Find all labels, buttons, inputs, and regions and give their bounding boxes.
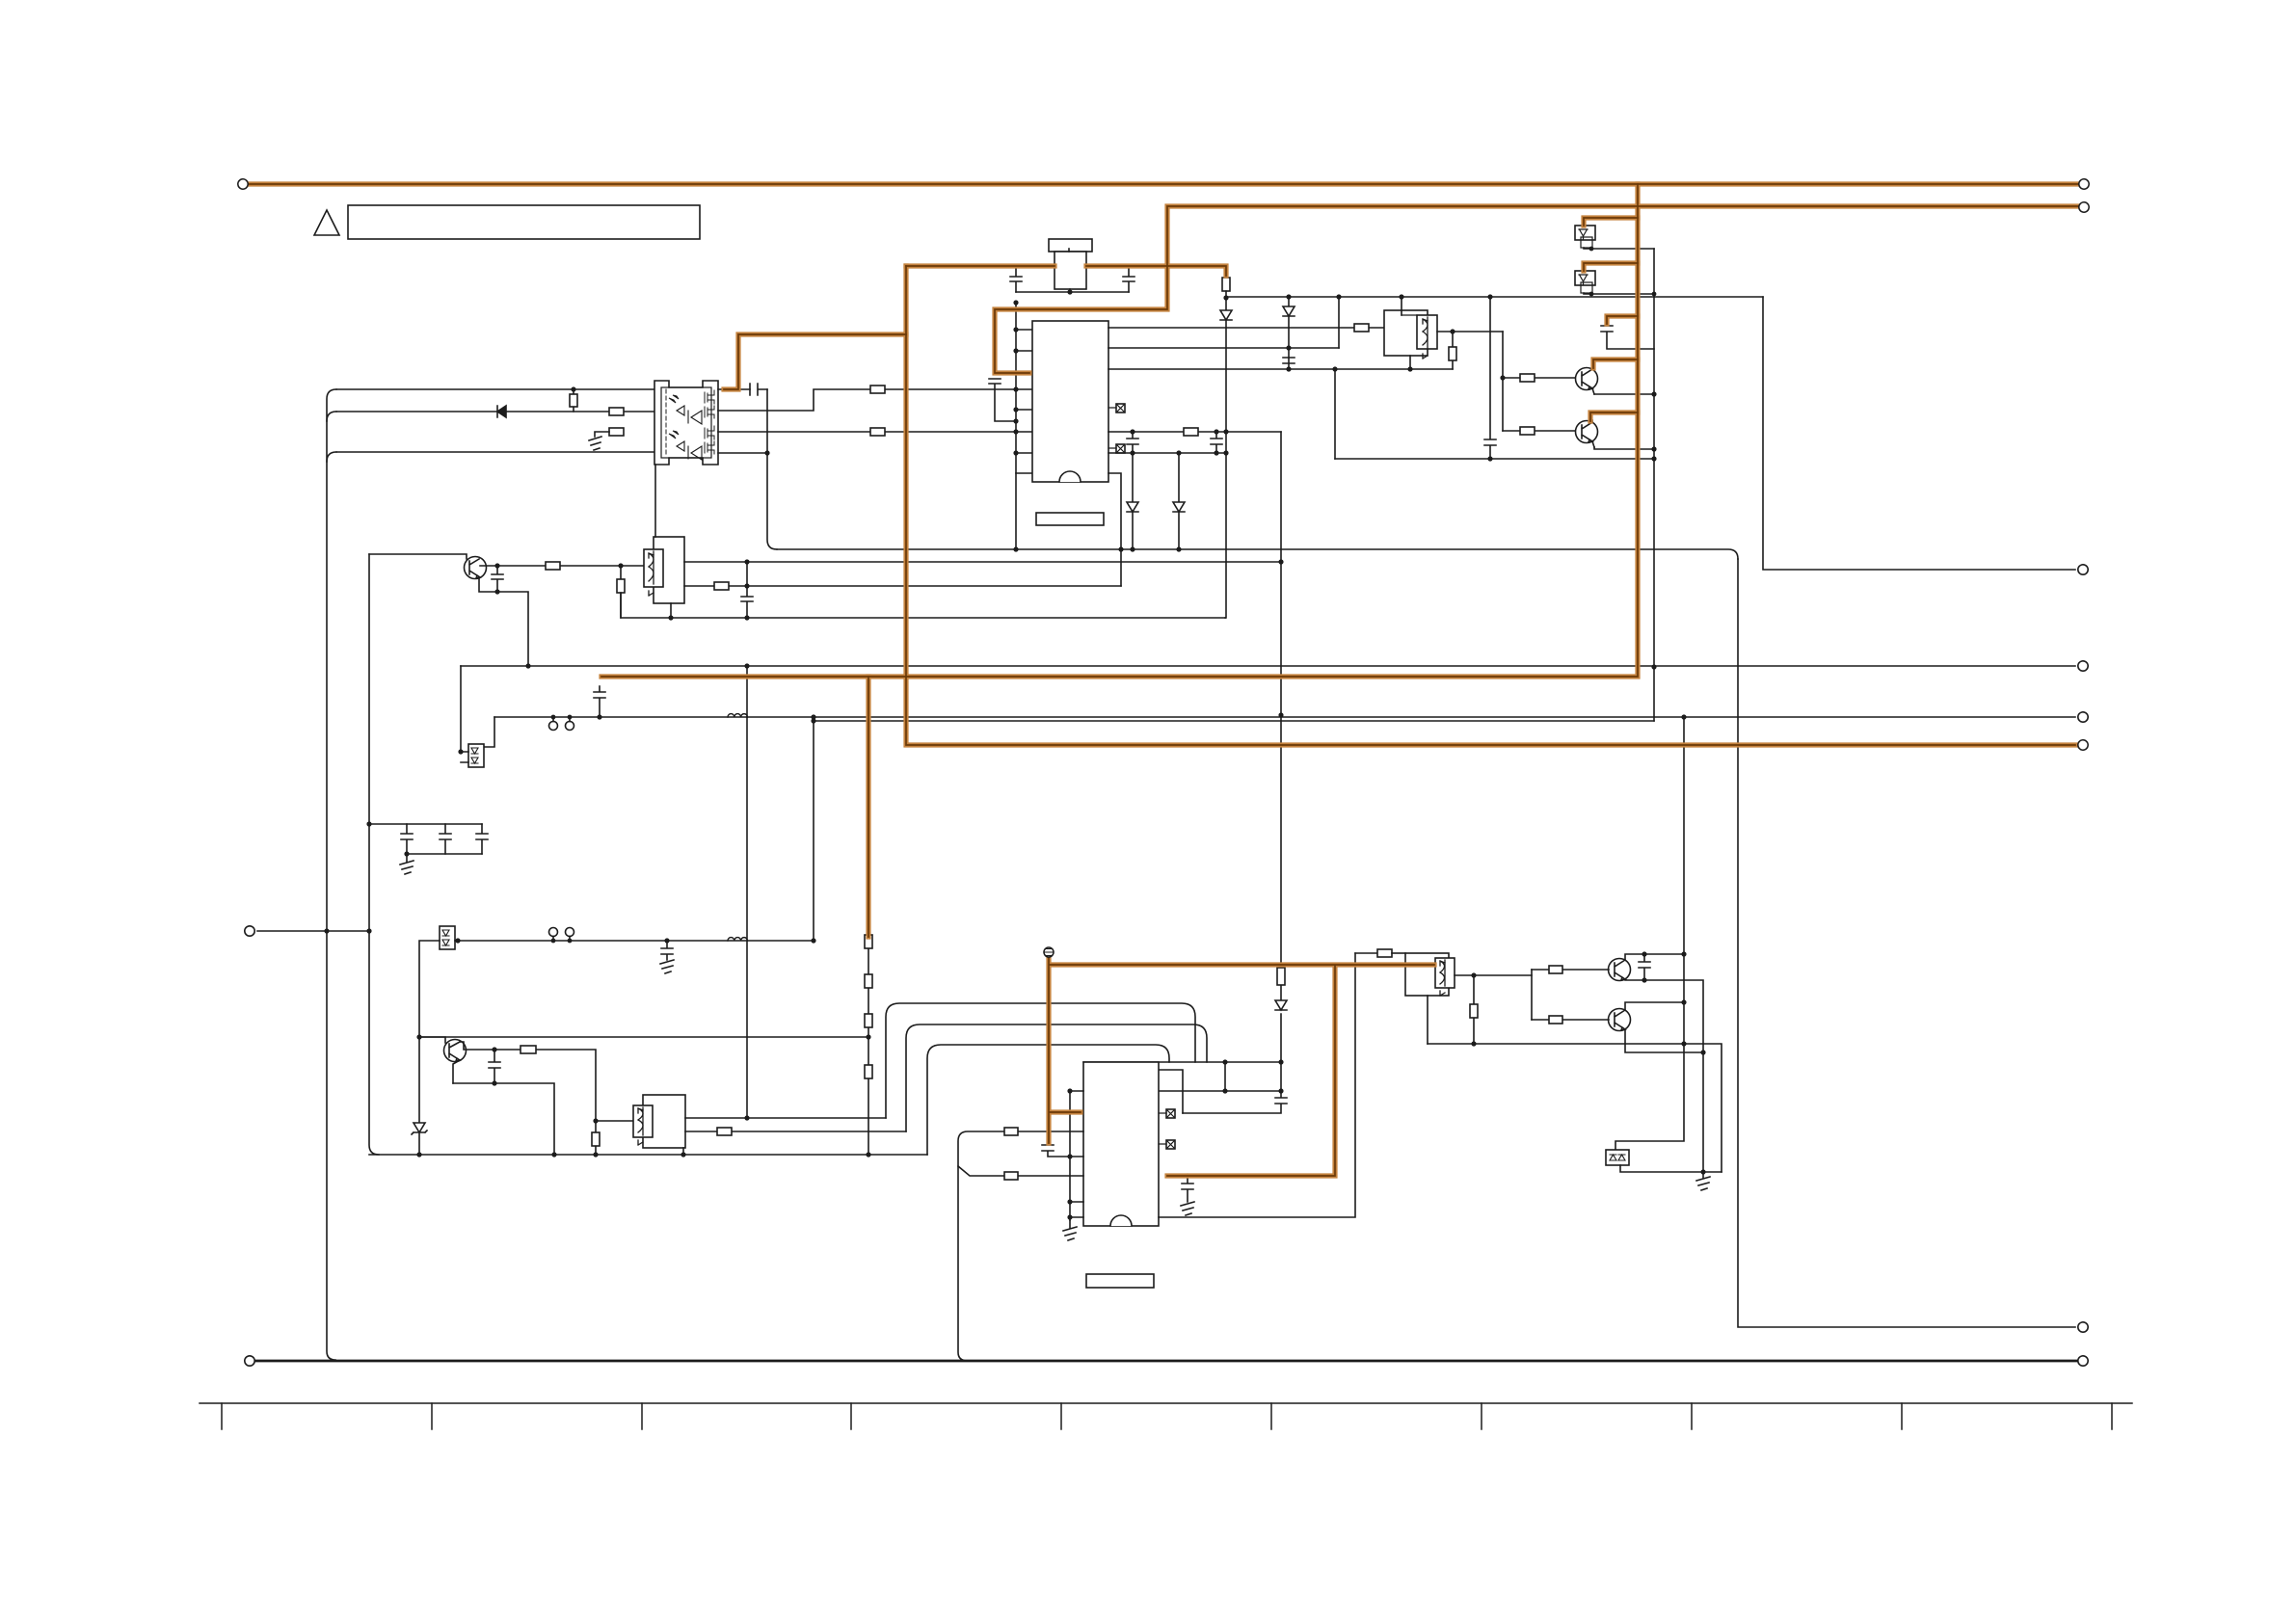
inductor L1 on y=744 bbox=[728, 714, 747, 717]
wire Q2 collector y=1089 bbox=[460, 1042, 596, 1121]
test point TP1 bbox=[1044, 947, 1054, 957]
wire x=1589 base split bbox=[1531, 970, 1533, 1020]
nodes on x=1054 bus bbox=[1013, 300, 1018, 305]
wire Q4 base y=447 bbox=[1503, 430, 1575, 432]
node x796 y470 bbox=[764, 450, 769, 455]
wire U1 right pin y=361 bbox=[1108, 347, 1339, 349]
wire x=775 y691 to y744 bbox=[746, 666, 748, 717]
wire x=1546 y308 down with cap C24 bbox=[1484, 297, 1496, 459]
wire y=404 to optocoupler U3 bbox=[336, 388, 654, 390]
driver U4 box bbox=[1384, 310, 1428, 356]
capacitor C13 series on y=404 bbox=[750, 384, 767, 395]
resistor R15 on y=448 bbox=[870, 428, 885, 436]
terminal circle T4R orange rail bbox=[2078, 740, 2088, 750]
wire U7 right pin y=976 rail bbox=[455, 940, 814, 942]
wire U9 output y=1012 bbox=[1455, 974, 1532, 976]
U8 pair glyph bbox=[638, 1108, 643, 1145]
footer tick 6 bbox=[1270, 1403, 1272, 1429]
diode pack DZ3 bbox=[1606, 1150, 1629, 1165]
wire Q3 base y=392 bbox=[1503, 377, 1575, 379]
node y=448 on bus bbox=[1013, 429, 1018, 434]
heatsink tab Q0 bbox=[1049, 239, 1092, 252]
wire Q6 base y=1058 bbox=[1532, 1019, 1609, 1021]
U1 watchdog pins right small squares bbox=[1116, 404, 1125, 412]
resistor R22 on y=448 bbox=[1184, 428, 1198, 436]
resistor chain x=901 R51 R52 R53 R54 bbox=[868, 948, 869, 1155]
capacitor C3 under orange pin bbox=[989, 379, 1016, 421]
wire y=641 rail bbox=[621, 593, 1225, 618]
wire U5 bottom pin down bbox=[670, 603, 672, 618]
wire U2 right pin y=1263 to x=1406 up bbox=[1159, 953, 1355, 1217]
capacitor C1 left of T1 bbox=[1010, 266, 1022, 292]
nest bracket W1 bbox=[886, 1003, 1195, 1118]
U2 watchdog pins right small squares bbox=[1166, 1109, 1175, 1118]
transistor Q1 bbox=[465, 557, 487, 579]
zener pack DZ2 bbox=[1584, 263, 1638, 271]
wire y=427 from left bus bbox=[327, 412, 336, 421]
U1 outer frame right wire bbox=[1108, 473, 1121, 586]
resistor R35 vertical x=617 bbox=[595, 1121, 597, 1155]
wire U3 pin2 right then up to y=404 rail bbox=[718, 389, 1016, 411]
resistor R33 on y=608 bbox=[714, 582, 729, 590]
optocoupler U7 bbox=[440, 926, 455, 949]
capacitor bank C34 C35 C36 top rail bbox=[369, 823, 482, 825]
wire y=1124 bbox=[453, 1083, 554, 1155]
footer tick 8 bbox=[1691, 1403, 1693, 1429]
wire U1 right pin y=383 bbox=[1108, 368, 1453, 370]
IC U1 body bbox=[1032, 321, 1108, 482]
wire x=1271 corner up from y641 bbox=[1224, 617, 1226, 619]
footer tick 5 bbox=[1060, 1403, 1062, 1429]
wire output x=1559 down bbox=[1502, 332, 1504, 431]
ground G1 bbox=[589, 437, 601, 450]
wire U5 output y=608 bbox=[684, 585, 1121, 587]
resistor R24 vertical x=1507 bbox=[1452, 332, 1454, 369]
capacitor C34 bbox=[401, 824, 413, 854]
capacitor C31 bbox=[492, 566, 503, 592]
wire Q1 base y=575 bbox=[369, 554, 467, 559]
wire Q2 base junction y=1076 bbox=[419, 1036, 868, 1038]
wire U4 bottom pin to y383 bbox=[1409, 356, 1411, 369]
wire U5 right top to y=583 bbox=[684, 561, 1281, 563]
transistor Q3 bbox=[1576, 368, 1598, 390]
wire U4 output node bbox=[1437, 331, 1503, 333]
diode D23 on x=1271 bbox=[1220, 310, 1232, 320]
wire y=570 rail bbox=[777, 549, 1738, 559]
U3 ch1 photodiode buffer fets bbox=[669, 395, 679, 403]
wire Q2 emitter down bbox=[453, 1060, 460, 1083]
wire x=383 vertical bbox=[369, 554, 379, 1155]
wire Q3 emitter to x=1716 bbox=[1594, 393, 1654, 395]
resistor R21 on y=340 bbox=[1354, 324, 1369, 332]
resistor R32 vertical x=644 bbox=[620, 566, 622, 618]
terminal circle OUT2 bbox=[2078, 661, 2088, 671]
wire U3 pin4 to x=796 junction bbox=[718, 452, 767, 454]
wire y=308 rail bbox=[1226, 296, 1763, 298]
connector pins P1 P2 bbox=[549, 722, 558, 731]
IC U2 body bbox=[1083, 1062, 1159, 1226]
wire U3 out pin1 to cap bbox=[718, 388, 750, 390]
wire U2 left pin y=1174 with resistor R55 bbox=[958, 1131, 1083, 1361]
optocoupler U3 package bbox=[654, 381, 718, 465]
footer tick 10 bbox=[2111, 1403, 2113, 1429]
wire U2 pin jog x=1227 bbox=[1159, 1070, 1183, 1113]
wire Q1 emitter bbox=[479, 577, 528, 666]
U1 left pin bus x=1054 bbox=[1015, 303, 1017, 549]
main bus thick wire y=1412 bbox=[255, 1360, 2079, 1363]
capacitor C38 bbox=[489, 1050, 500, 1083]
capacitor C21 x=1175 bbox=[1127, 432, 1138, 453]
U4 npn pnp pair glyph bbox=[1423, 319, 1428, 359]
footer tick 4 bbox=[850, 1403, 852, 1429]
wire y=448 ground stub bbox=[595, 432, 609, 437]
resistor R12 on y=427 bbox=[609, 408, 624, 415]
resistor R26 bbox=[1520, 427, 1535, 435]
diode D41 on x=1329 bbox=[1275, 1000, 1287, 1010]
wire U8 top out y=1160 east to bracket W1 bbox=[685, 1117, 886, 1119]
capacitor C2 right of T1 bbox=[1123, 266, 1135, 292]
resistor R14 on y=404 rail bbox=[870, 386, 885, 393]
terminal circle T2R bbox=[2079, 202, 2089, 212]
wire U8 out y=1174 east to bracket W2 bbox=[685, 1131, 906, 1132]
wire x=775 vertical from y=744 bbox=[746, 717, 748, 1118]
wire x=1385 y383-y476 bbox=[1334, 369, 1336, 459]
wire x=1272 vertical bbox=[1225, 291, 1227, 618]
capacitor C41 x=1329 bbox=[1183, 1062, 1287, 1113]
U9 pair glyph bbox=[1440, 961, 1445, 996]
diode D22 hanging x=1223 bbox=[1178, 453, 1180, 549]
capacitor C36 bbox=[476, 824, 488, 854]
footer tick 2 bbox=[431, 1403, 433, 1429]
terminal circle OUT7 bbox=[2078, 1356, 2088, 1366]
diode D21 hanging x=1175 bbox=[1132, 453, 1134, 549]
wire U1 right pin y=340 to driver bbox=[1108, 327, 1384, 329]
wire U4 top feed from y308 bbox=[1401, 297, 1402, 315]
footer tick 7 bbox=[1481, 1403, 1482, 1429]
resistor R25 bbox=[1520, 374, 1535, 382]
wire U3 pin3 long right y=448 bbox=[718, 431, 1108, 433]
wire x=1716 vertical bbox=[1653, 249, 1655, 721]
wire U9 bottom pin down bbox=[1427, 996, 1428, 1044]
capacitor C51 x=1087 under orange bbox=[1042, 1145, 1070, 1157]
capacitor C33 under orange at x=622 bbox=[594, 686, 605, 717]
wire U7 left pin west then down x=435 bbox=[419, 941, 440, 1155]
capacitor C25 x=1667 bbox=[1601, 322, 1654, 349]
wire y=691 rail long bbox=[461, 665, 2075, 667]
node y303 bbox=[1067, 289, 1072, 294]
wire T1 bottom pin bbox=[1069, 289, 1071, 292]
wire corner x=1389 y308-y361 bbox=[1338, 297, 1340, 348]
wire y=303 under T1 bbox=[1016, 291, 1129, 293]
nest bracket W3 bbox=[927, 1045, 1169, 1155]
wire from IN1 to x=383 bbox=[257, 930, 369, 932]
capacitor C35 bbox=[440, 824, 451, 854]
zener pack DZ1 bbox=[1584, 218, 1638, 226]
driver U9 box bbox=[1405, 953, 1449, 996]
terminal circle IN2 bbox=[245, 1356, 254, 1366]
wire x=1271 y1102-1132 bbox=[1224, 1062, 1226, 1091]
warning triangle bbox=[314, 210, 339, 235]
wire y=1083 rail bbox=[1428, 1044, 1722, 1172]
terminal circle T1L bbox=[238, 179, 248, 189]
terminal circle T1R bbox=[2079, 179, 2089, 189]
resistor R41 on x=1329 bbox=[1277, 968, 1285, 985]
wire y=469 from left bus bbox=[327, 452, 336, 462]
ground G4 bbox=[1063, 1220, 1077, 1240]
wire x=1747 vertical bbox=[1615, 717, 1684, 1150]
terminal circle IN1 bbox=[245, 926, 254, 936]
capacitor C37 with ground at x=692 bbox=[661, 941, 673, 960]
U1 pin stubs left bbox=[1016, 330, 1032, 473]
wire Q6 collector bbox=[1625, 1002, 1684, 1010]
terminal circle OUT1 bbox=[2078, 565, 2088, 574]
label box under U2 bbox=[1086, 1274, 1154, 1288]
wire x=844 vertical bbox=[813, 717, 814, 941]
resistor R13 on y=448 bbox=[609, 428, 624, 436]
capacitor C52 and ground at x=1232 bbox=[1182, 1176, 1193, 1202]
wire U2 left pin y=1220 with resistor R56 bbox=[958, 1166, 1083, 1176]
diode D11 on y=427 bbox=[497, 406, 506, 417]
zener D31 on x=435 bbox=[412, 1123, 427, 1134]
wire Q6 emitter bbox=[1625, 1029, 1703, 1052]
resistor R61 bbox=[1377, 949, 1392, 957]
nest bracket W2 bbox=[906, 1024, 1207, 1131]
ground G2 bbox=[400, 854, 414, 874]
wire left input bus verticals bbox=[327, 389, 336, 1360]
wire Q5 emitter bbox=[1625, 979, 1703, 1172]
wire U2 right pin y=1132 bbox=[1159, 1090, 1281, 1092]
resistor R62 vertical x=1529 bbox=[1473, 975, 1475, 1044]
wire x=1803 long vertical to OUT6 bbox=[1738, 559, 2075, 1327]
resistor R34 bbox=[521, 1046, 536, 1053]
wire cap bank bottom rail bbox=[407, 853, 482, 855]
capacitor C22 x=1262 bbox=[1211, 432, 1222, 453]
transistor Q5 bbox=[1609, 959, 1631, 981]
capacitor C23 on x=1337 bbox=[1283, 358, 1295, 363]
wire U1 right pin y=470 east bbox=[1108, 452, 1225, 454]
wire x=775 y583 to y641 with cap C32 bbox=[741, 562, 753, 618]
footer tick 1 bbox=[221, 1403, 223, 1429]
note box bbox=[348, 205, 700, 239]
wire Q4 emitter to x=1716 bbox=[1594, 447, 1654, 449]
U5 pair glyph bbox=[649, 553, 654, 596]
wire driver U9 feed bbox=[1355, 952, 1377, 954]
capacitor C61 bbox=[1639, 954, 1650, 980]
diode D24 on x=1337 bbox=[1288, 297, 1290, 369]
wire Q5 collector bbox=[1625, 954, 1684, 960]
wire x=513 corner down to opto U6 right pin bbox=[484, 717, 494, 747]
wire Q5 base y=1006 bbox=[1532, 969, 1609, 971]
resistor R31 bbox=[546, 562, 560, 570]
wire U1 right pin y=448 east bbox=[1108, 431, 1281, 433]
U3 ch2 photodiode buffer fets bbox=[669, 431, 679, 439]
wire vertical x=796 down to y=570 bbox=[767, 389, 777, 549]
wire y=308 corner down x=1829 to terminal bbox=[1763, 297, 2075, 570]
wire Q1 collector y=587 bbox=[480, 565, 646, 567]
wire U5 top pin up to U3 bbox=[654, 465, 656, 537]
driver U8 box bbox=[596, 1120, 643, 1122]
transistor Q4 bbox=[1576, 421, 1598, 443]
resistor R11 vertical between y404/y427 bbox=[573, 389, 574, 412]
connector pins P3 P4 bbox=[549, 928, 558, 937]
driver U5 box bbox=[654, 537, 684, 603]
footer border line bbox=[200, 1402, 2132, 1404]
ground G6 bbox=[1696, 1172, 1710, 1190]
wire y=476 bbox=[1335, 458, 1654, 460]
resistor R36 bbox=[717, 1128, 732, 1135]
wire x=844 y748 rail west end bbox=[814, 720, 1654, 722]
inductor L2 on y=976 bbox=[728, 938, 747, 941]
U2 left pin bus x=1110 bbox=[1069, 1091, 1071, 1220]
wire U8 bottom pin bbox=[682, 1148, 684, 1155]
transistor Q6 bbox=[1609, 1009, 1631, 1031]
optocoupler U6 bbox=[468, 744, 484, 767]
transistor Q2 bbox=[419, 1037, 445, 1043]
ground G5 bbox=[1181, 1202, 1194, 1215]
wire x=478 down to opto U6 bbox=[460, 666, 462, 752]
node y583 end bbox=[1278, 559, 1283, 564]
wire y=744 rail long bbox=[494, 716, 2075, 718]
label box under U1 bbox=[1036, 513, 1104, 525]
resistor R23 top of x=1271 under orange bbox=[1222, 278, 1230, 291]
wire y=1198 bottom rail bbox=[369, 1154, 927, 1156]
footer tick 9 bbox=[1901, 1403, 1903, 1429]
terminal circle OUT6 bbox=[2078, 1322, 2088, 1332]
ground G3 bbox=[660, 960, 674, 973]
wire x=1329 long vertical bbox=[1280, 432, 1282, 1062]
footer tick 3 bbox=[641, 1403, 643, 1429]
regulator T1 body bbox=[1055, 252, 1086, 289]
wire U2 top rail y=1102 bbox=[1083, 1061, 1281, 1063]
terminal circle OUT3 bbox=[2078, 712, 2088, 722]
